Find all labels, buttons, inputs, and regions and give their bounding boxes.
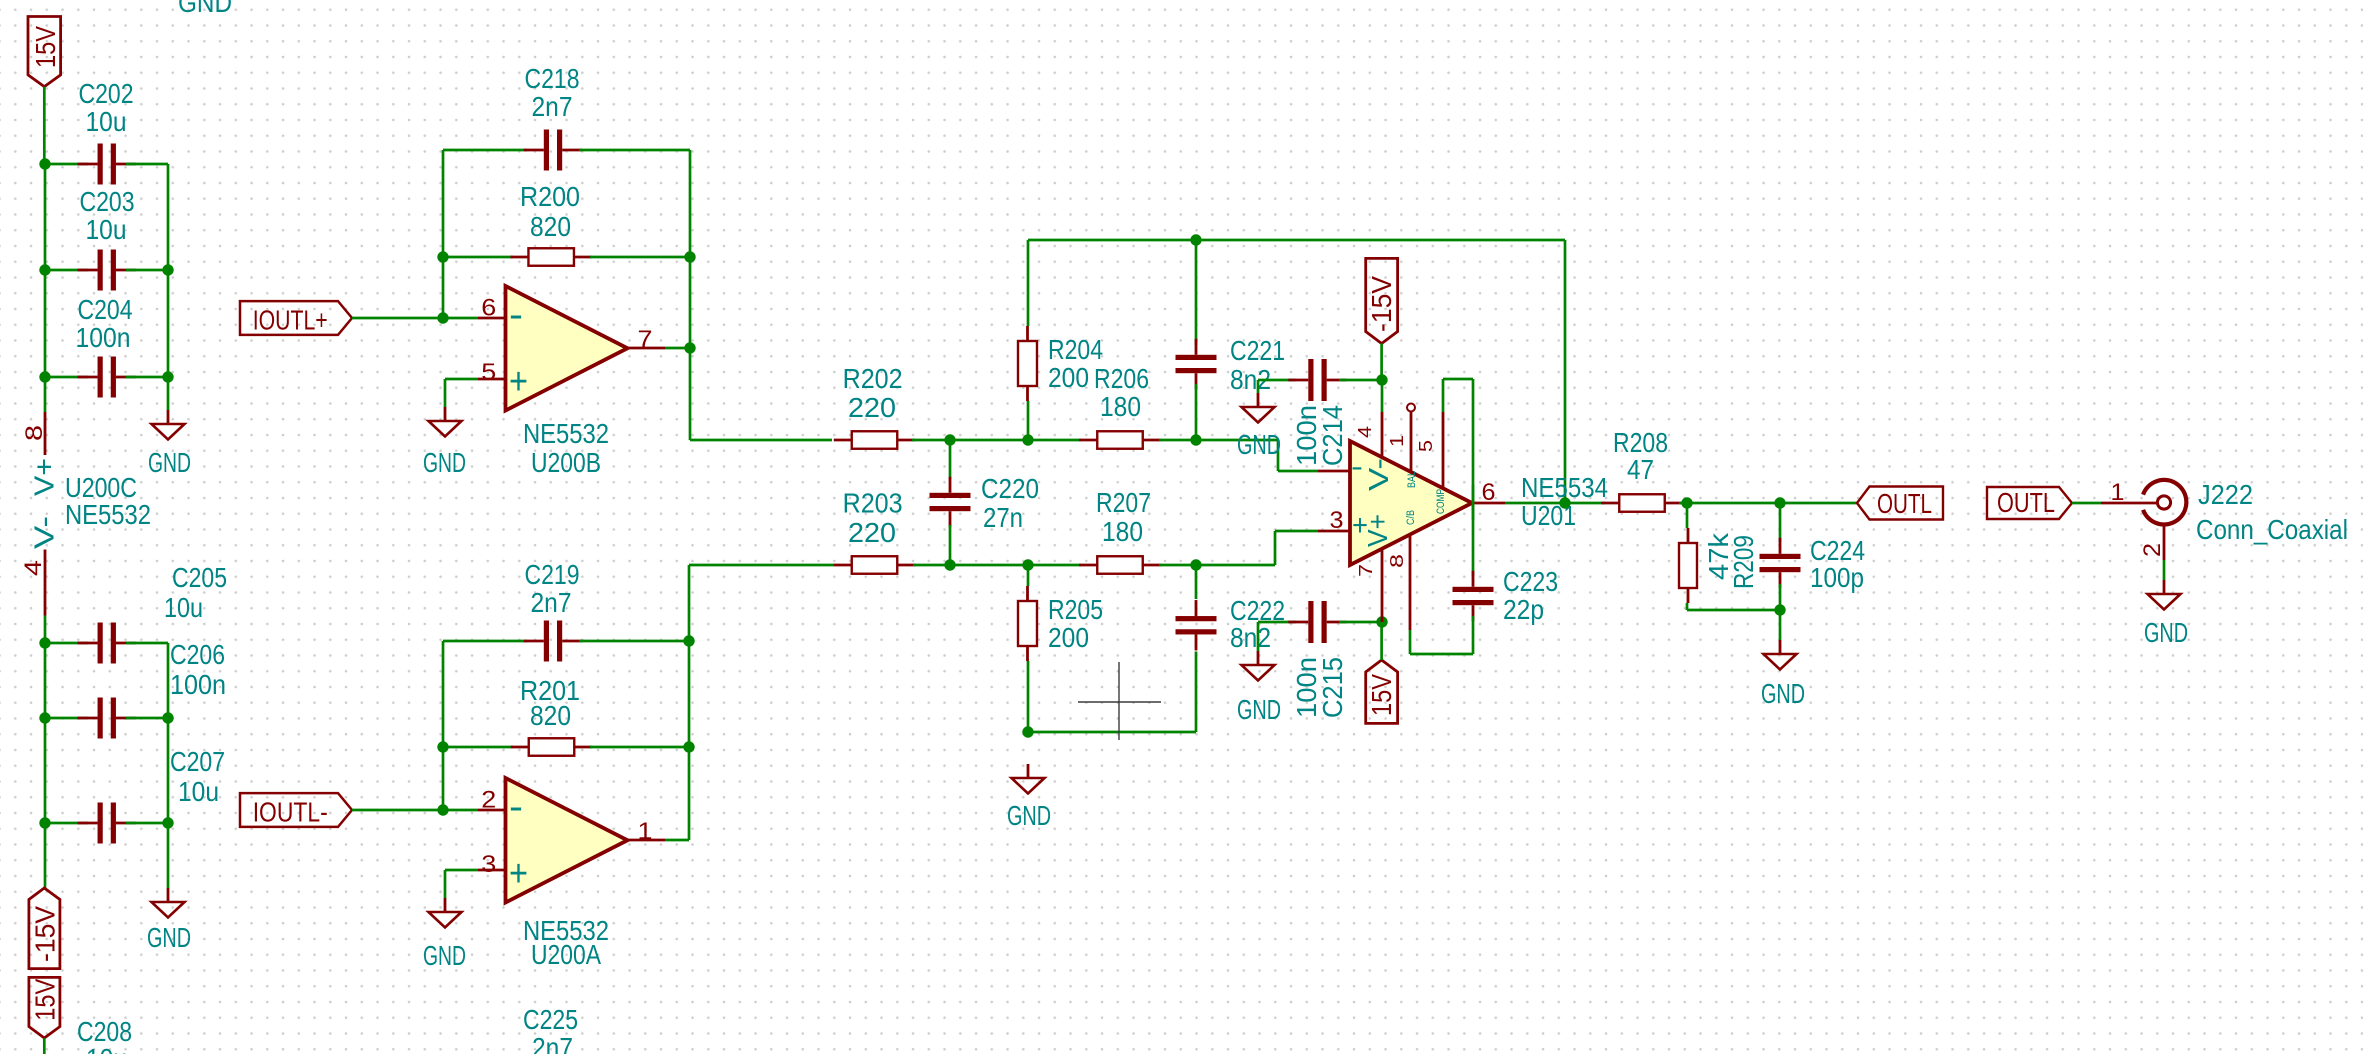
svg-text:2: 2: [481, 787, 496, 814]
svg-text:2n7: 2n7: [532, 91, 573, 122]
svg-text:C202: C202: [79, 78, 134, 109]
svg-text:R203: R203: [843, 488, 903, 519]
svg-text:4: 4: [1355, 426, 1375, 438]
svg-text:5: 5: [481, 359, 496, 386]
svg-text:1: 1: [2111, 479, 2125, 506]
svg-text:J222: J222: [2198, 479, 2253, 510]
svg-text:R207: R207: [1096, 487, 1151, 518]
svg-text:NE5532: NE5532: [523, 418, 609, 449]
svg-text:C203: C203: [80, 186, 135, 217]
svg-text:200: 200: [1048, 362, 1089, 393]
svg-text:GND: GND: [148, 447, 191, 478]
svg-text:R204: R204: [1048, 334, 1103, 365]
svg-text:2n7: 2n7: [531, 587, 572, 618]
svg-text:2n7: 2n7: [532, 1032, 573, 1054]
svg-text:R205: R205: [1048, 594, 1103, 625]
svg-text:GND: GND: [2144, 617, 2188, 648]
svg-text:7: 7: [1356, 564, 1376, 577]
svg-text:10u: 10u: [86, 1043, 127, 1054]
svg-text:47: 47: [1627, 454, 1654, 485]
svg-text:1: 1: [1387, 435, 1407, 447]
svg-text:6: 6: [481, 295, 496, 322]
svg-text:15V: 15V: [1366, 674, 1397, 716]
svg-text:GND: GND: [423, 940, 466, 971]
svg-text:8: 8: [21, 425, 48, 441]
svg-text:-: -: [509, 786, 523, 828]
svg-text:C223: C223: [1503, 566, 1558, 597]
svg-text:27n: 27n: [983, 502, 1023, 533]
svg-text:V-: V-: [1363, 458, 1394, 491]
svg-text:100p: 100p: [1810, 562, 1864, 593]
svg-text:15V: 15V: [30, 26, 61, 68]
svg-text:10u: 10u: [164, 592, 203, 623]
svg-text:Conn_Coaxial: Conn_Coaxial: [2196, 514, 2348, 545]
svg-text:C214: C214: [1317, 405, 1348, 466]
svg-text:C206: C206: [170, 639, 225, 670]
svg-text:10u: 10u: [86, 106, 127, 137]
svg-text:U200A: U200A: [531, 939, 601, 970]
svg-text:GND: GND: [178, 0, 232, 18]
svg-text:C207: C207: [170, 746, 225, 777]
svg-text:C215: C215: [1317, 657, 1348, 718]
svg-text:C/B: C/B: [1405, 510, 1417, 525]
svg-text:GND: GND: [1007, 800, 1051, 831]
svg-text:NE5532: NE5532: [65, 499, 151, 530]
svg-text:V+: V+: [1362, 514, 1393, 547]
svg-text:820: 820: [530, 700, 571, 731]
svg-text:C219: C219: [525, 559, 580, 590]
svg-text:-: -: [1351, 451, 1363, 482]
svg-text:100n: 100n: [170, 669, 226, 700]
svg-text:100n: 100n: [76, 322, 131, 353]
svg-text:GND: GND: [147, 922, 191, 953]
svg-text:8n2: 8n2: [1230, 622, 1271, 653]
svg-text:3: 3: [1330, 507, 1344, 534]
svg-text:4: 4: [20, 560, 47, 576]
svg-text:-: -: [509, 294, 523, 336]
svg-text:OUTL: OUTL: [1997, 487, 2055, 518]
svg-text:V-: V-: [29, 516, 60, 549]
svg-text:180: 180: [1102, 516, 1143, 547]
svg-text:C218: C218: [525, 63, 580, 94]
svg-text:OUTL: OUTL: [1877, 488, 1932, 519]
svg-text:GND: GND: [1237, 694, 1281, 725]
svg-text:IOUTL-: IOUTL-: [253, 797, 328, 828]
svg-text:200: 200: [1048, 622, 1089, 653]
svg-text:R202: R202: [843, 363, 903, 394]
svg-text:C205: C205: [172, 562, 227, 593]
svg-text:U200B: U200B: [531, 447, 601, 478]
svg-text:GND: GND: [423, 447, 466, 478]
svg-text:220: 220: [848, 392, 896, 423]
svg-text:2: 2: [2139, 543, 2166, 557]
svg-text:1: 1: [638, 818, 653, 845]
svg-text:C225: C225: [523, 1004, 578, 1035]
svg-text:GND: GND: [1237, 429, 1281, 460]
svg-text:8: 8: [1387, 554, 1407, 568]
svg-text:R200: R200: [520, 181, 580, 212]
svg-text:5: 5: [1416, 440, 1436, 452]
svg-text:+: +: [509, 361, 528, 403]
svg-text:C220: C220: [981, 473, 1039, 504]
svg-text:-15V: -15V: [1366, 276, 1397, 332]
svg-text:C221: C221: [1230, 335, 1285, 366]
svg-text:7: 7: [638, 326, 653, 353]
svg-text:BAL: BAL: [1406, 471, 1418, 488]
svg-text:COMP: COMP: [1435, 489, 1447, 514]
svg-text:22p: 22p: [1503, 594, 1544, 625]
svg-text:220: 220: [848, 517, 896, 548]
svg-text:V+: V+: [29, 458, 60, 496]
svg-text:R206: R206: [1094, 363, 1149, 394]
svg-text:R209: R209: [1728, 535, 1759, 589]
svg-text:180: 180: [1100, 391, 1141, 422]
svg-text:15V: 15V: [29, 978, 60, 1020]
svg-text:10u: 10u: [178, 776, 219, 807]
svg-text:820: 820: [530, 211, 571, 242]
svg-text:10u: 10u: [86, 214, 127, 245]
svg-text:IOUTL+: IOUTL+: [253, 305, 328, 336]
svg-text:+: +: [509, 853, 528, 895]
svg-text:3: 3: [481, 851, 496, 878]
svg-text:GND: GND: [1761, 678, 1805, 709]
svg-text:C204: C204: [78, 294, 133, 325]
svg-text:-15V: -15V: [29, 906, 60, 962]
